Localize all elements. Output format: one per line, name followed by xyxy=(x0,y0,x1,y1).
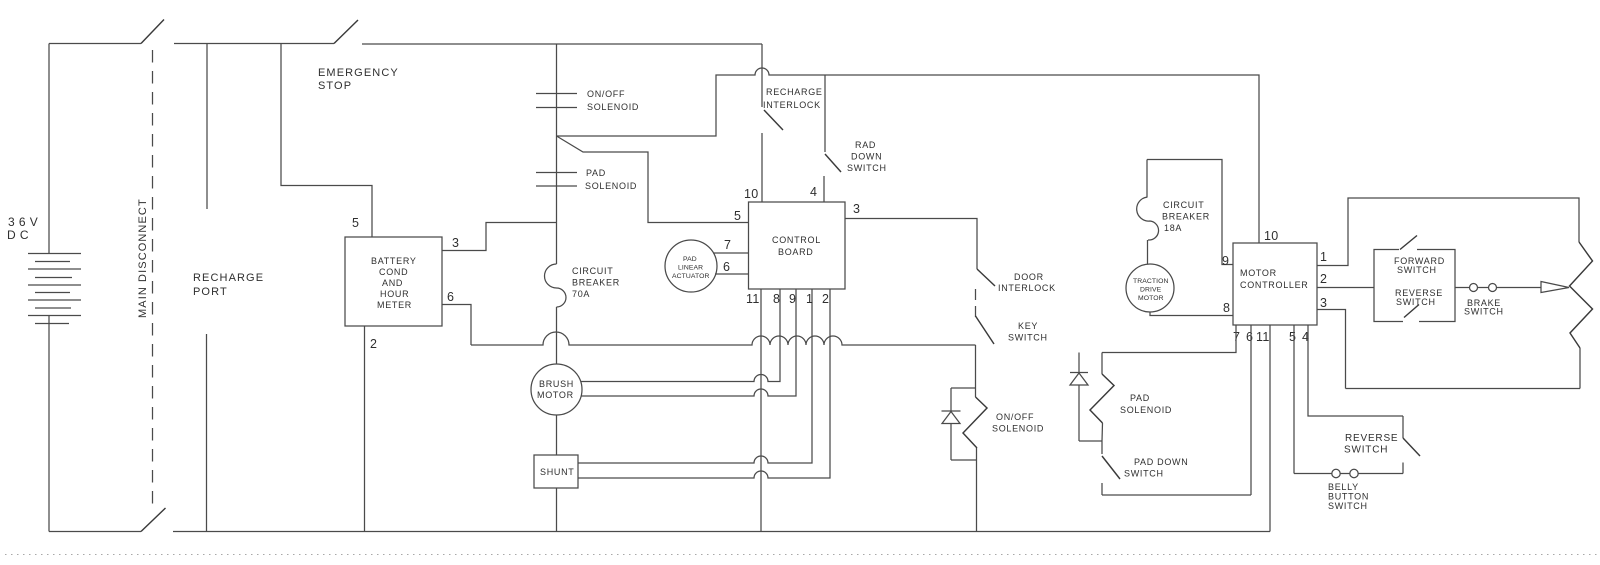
pad linear actuator xyxy=(665,240,717,292)
svg-text:SWITCH: SWITCH xyxy=(1328,501,1368,511)
main disconnect dashed link + label xyxy=(137,50,153,505)
wire motor controller pin 2 to forward/reverse switch xyxy=(1317,287,1374,289)
brush motor xyxy=(531,364,582,415)
dotted page separator xyxy=(5,554,1597,556)
belly button switch xyxy=(1294,469,1403,511)
main disconnect switch (top pole) xyxy=(49,20,334,44)
wire shunt to control board pin 2 xyxy=(578,289,830,478)
reverse switch (bottom) xyxy=(1344,416,1420,474)
wire actuator to control board pin 6 xyxy=(715,260,749,274)
svg-text:18A: 18A xyxy=(1164,223,1182,233)
main disconnect switch (bottom pole) xyxy=(49,508,166,532)
svg-text:RECHARGE: RECHARGE xyxy=(766,87,823,97)
svg-text:5: 5 xyxy=(734,209,741,223)
svg-text:4: 4 xyxy=(810,185,817,199)
svg-text:RAD: RAD xyxy=(855,140,876,150)
wire control board pin 11 to bottom bus xyxy=(760,289,762,532)
svg-text:PAD DOWN: PAD DOWN xyxy=(1134,457,1188,467)
wire pin 6 of meter to mid bus xyxy=(442,290,471,345)
svg-text:SOLENOID: SOLENOID xyxy=(587,102,639,112)
door interlock switch xyxy=(977,269,1056,293)
brake switch xyxy=(1455,282,1569,317)
svg-text:8: 8 xyxy=(1223,301,1230,315)
svg-text:INTERLOCK: INTERLOCK xyxy=(763,100,821,110)
pad solenoid (coil plates) xyxy=(536,168,637,191)
wire traction motor to motor controller pin 8 xyxy=(1150,301,1233,316)
svg-text:70A: 70A xyxy=(572,289,590,299)
svg-text:SWITCH: SWITCH xyxy=(1124,469,1164,479)
wire main vertical through solenoids xyxy=(556,44,558,264)
svg-text:LINEAR: LINEAR xyxy=(678,265,703,272)
svg-text:SOLENOID: SOLENOID xyxy=(585,181,637,191)
motor controller xyxy=(1233,229,1317,325)
svg-text:SWITCH: SWITCH xyxy=(1397,265,1437,275)
svg-text:HOUR: HOUR xyxy=(380,289,409,299)
circuit breaker 70A xyxy=(545,264,620,365)
wire motor controller pin 1 to pot top xyxy=(1317,198,1579,266)
svg-text:BREAKER: BREAKER xyxy=(572,278,620,288)
svg-text:MOTOR: MOTOR xyxy=(1240,268,1277,278)
wire bottom bus xyxy=(173,531,1270,533)
wire mid bus with hop arcs xyxy=(471,332,976,345)
wire motor controller pin 3 to pot bottom xyxy=(1317,310,1346,389)
wire brush motor to control board pin 8 xyxy=(581,289,780,382)
svg-text:1: 1 xyxy=(1320,250,1327,264)
svg-text:EMERGENCY: EMERGENCY xyxy=(318,67,399,79)
wire top bus right segment xyxy=(362,43,762,45)
svg-text:DOOR: DOOR xyxy=(1014,272,1044,282)
svg-text:5: 5 xyxy=(352,216,359,230)
svg-text:5: 5 xyxy=(1289,330,1296,344)
svg-text:PAD: PAD xyxy=(586,168,606,178)
wire brush motor to shunt xyxy=(556,415,558,455)
svg-text:1: 1 xyxy=(806,292,813,306)
emergency stop switch xyxy=(318,20,399,92)
battery cond and hour meter xyxy=(345,237,442,326)
svg-text:ON/OFF: ON/OFF xyxy=(996,412,1034,422)
control board pin labels xyxy=(746,292,829,306)
on/off solenoid (coil plates) xyxy=(536,89,639,112)
svg-text:SWITCH: SWITCH xyxy=(1344,445,1388,456)
wire motor controller pin 4 to reverse switch xyxy=(1308,325,1403,416)
svg-text:2: 2 xyxy=(370,337,377,351)
svg-text:7: 7 xyxy=(1233,330,1240,344)
forward / reverse switch box xyxy=(1374,236,1455,322)
svg-text:MOTOR: MOTOR xyxy=(537,390,574,400)
svg-text:SWITCH: SWITCH xyxy=(847,163,887,173)
wire actuator to control board pin 7 xyxy=(713,238,749,253)
on/off solenoid (power) with flyback diode xyxy=(942,345,1045,532)
svg-text:10: 10 xyxy=(744,187,759,201)
wire shunt to bottom bus xyxy=(556,488,558,532)
svg-text:36V: 36V xyxy=(8,215,42,229)
svg-text:CIRCUIT: CIRCUIT xyxy=(572,266,613,276)
svg-text:3: 3 xyxy=(1320,296,1327,310)
svg-text:BELLY: BELLY xyxy=(1328,482,1359,492)
svg-text:REVERSE: REVERSE xyxy=(1345,433,1398,444)
wire brush motor to control board pin 9 xyxy=(581,289,796,396)
svg-text:6: 6 xyxy=(723,260,730,274)
svg-text:MOTOR: MOTOR xyxy=(1138,295,1164,302)
svg-text:3: 3 xyxy=(452,236,459,250)
svg-text:BREAKER: BREAKER xyxy=(1162,212,1210,222)
pad solenoid (power) with flyback diode xyxy=(1070,353,1172,442)
pad down switch xyxy=(1102,441,1251,495)
svg-text:3: 3 xyxy=(853,202,860,216)
svg-text:SWITCH: SWITCH xyxy=(1464,307,1504,317)
svg-text:11: 11 xyxy=(1256,330,1270,344)
svg-text:8: 8 xyxy=(773,292,780,306)
svg-text:PAD: PAD xyxy=(1130,393,1150,403)
svg-text:PAD: PAD xyxy=(683,256,697,263)
wire solenoid junction up and right to motor controller pin 10 xyxy=(557,68,1260,243)
circuit breaker 18A xyxy=(1137,160,1210,265)
svg-text:CONTROLLER: CONTROLLER xyxy=(1240,280,1309,290)
wire diagonal branch to control board pin 5 xyxy=(557,136,749,223)
svg-text:KEY: KEY xyxy=(1018,321,1038,331)
wire motor controller pin 6 xyxy=(1250,325,1252,495)
svg-text:ACTUATOR: ACTUATOR xyxy=(672,273,710,280)
wire control board pin 3 to door interlock xyxy=(845,202,977,269)
svg-text:9: 9 xyxy=(789,292,796,306)
traction drive motor xyxy=(1126,264,1174,312)
svg-text:9: 9 xyxy=(1222,254,1229,268)
svg-text:SOLENOID: SOLENOID xyxy=(992,424,1044,434)
svg-text:AND: AND xyxy=(382,278,403,288)
svg-text:SOLENOID: SOLENOID xyxy=(1120,405,1172,415)
wire drop to battery meter pin 5 xyxy=(281,44,372,238)
svg-text:CONTROL: CONTROL xyxy=(772,235,821,245)
svg-text:DC: DC xyxy=(7,228,33,242)
svg-text:BUTTON: BUTTON xyxy=(1328,492,1369,502)
svg-text:6: 6 xyxy=(1246,330,1253,344)
svg-text:DOWN: DOWN xyxy=(851,152,882,162)
svg-text:MAIN DISCONNECT: MAIN DISCONNECT xyxy=(137,198,149,318)
speed control potentiometer xyxy=(1346,242,1593,389)
svg-text:2: 2 xyxy=(822,292,829,306)
wire pin 3 of meter to breaker line xyxy=(442,223,556,251)
wire motor controller pin 11 to bottom bus xyxy=(1269,325,1271,532)
svg-text:BATTERY: BATTERY xyxy=(371,256,417,266)
svg-text:METER: METER xyxy=(377,300,412,310)
svg-text:BRUSH: BRUSH xyxy=(539,379,574,389)
svg-text:INTERLOCK: INTERLOCK xyxy=(998,283,1056,293)
recharge port xyxy=(193,44,264,532)
motor controller right pin labels xyxy=(1320,250,1327,310)
svg-text:COND: COND xyxy=(379,267,408,277)
svg-text:STOP: STOP xyxy=(318,80,352,92)
wire motor controller pin 7 to pad solenoid xyxy=(1102,325,1236,353)
recharge interlock switch xyxy=(744,44,823,202)
svg-text:RECHARGE: RECHARGE xyxy=(193,272,264,284)
svg-text:ON/OFF: ON/OFF xyxy=(587,89,625,99)
battery B1 36V DC xyxy=(7,44,81,532)
motor controller bottom pin labels xyxy=(1233,330,1309,344)
svg-text:SWITCH: SWITCH xyxy=(1396,297,1436,307)
svg-text:SHUNT: SHUNT xyxy=(540,467,575,477)
svg-text:10: 10 xyxy=(1264,229,1279,243)
svg-text:CIRCUIT: CIRCUIT xyxy=(1163,200,1204,210)
control board xyxy=(749,202,846,289)
wire pin 2 of meter to bottom bus xyxy=(365,326,378,532)
wire breaker 18A loop to motor controller pin 9 xyxy=(1147,160,1233,269)
svg-text:6: 6 xyxy=(447,290,454,304)
svg-text:2: 2 xyxy=(1320,272,1327,286)
svg-text:11: 11 xyxy=(746,292,760,306)
svg-text:7: 7 xyxy=(724,238,731,252)
shunt xyxy=(534,455,578,488)
svg-text:DRIVE: DRIVE xyxy=(1140,287,1162,294)
svg-text:PORT: PORT xyxy=(193,286,228,298)
svg-text:TRACTION: TRACTION xyxy=(1133,278,1169,285)
key switch xyxy=(976,289,1048,344)
rad down switch xyxy=(810,75,887,202)
wire motor controller pin 5 to belly button switch xyxy=(1293,325,1295,474)
svg-text:SWITCH: SWITCH xyxy=(1008,333,1048,343)
wire shunt to control board pin 1 xyxy=(578,289,812,463)
svg-text:BOARD: BOARD xyxy=(778,247,814,257)
